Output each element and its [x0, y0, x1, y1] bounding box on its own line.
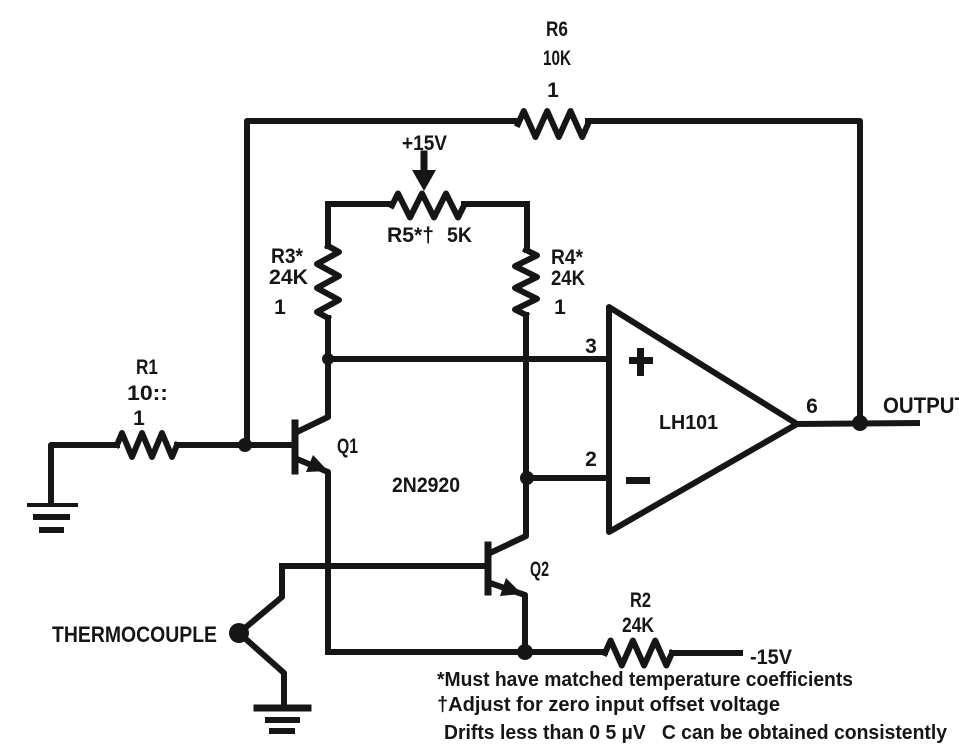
svg-text:6: 6: [806, 395, 818, 418]
svg-text:R6: R6: [546, 18, 568, 41]
svg-text:2: 2: [585, 448, 597, 471]
svg-text:5K: 5K: [447, 224, 472, 247]
svg-text:10K: 10K: [543, 47, 571, 70]
svg-text:R5*†: R5*†: [387, 224, 434, 247]
svg-text:†Adjust for zero input offset: †Adjust for zero input offset voltage: [437, 694, 780, 716]
svg-text:24K: 24K: [622, 614, 654, 637]
svg-text:THERMOCOUPLE: THERMOCOUPLE: [52, 622, 217, 647]
svg-text:24K: 24K: [269, 266, 308, 289]
svg-text:R1: R1: [136, 356, 158, 379]
svg-text:1: 1: [547, 79, 559, 102]
svg-text:*Must have matched temperature: *Must have matched temperature coefficie…: [437, 669, 853, 691]
svg-text:+15V: +15V: [402, 132, 447, 155]
svg-text:1: 1: [274, 296, 286, 319]
svg-text:2N2920: 2N2920: [392, 474, 460, 497]
svg-text:OUTPUT: OUTPUT: [883, 393, 959, 418]
svg-text:1: 1: [133, 407, 145, 430]
svg-text:Drifts less than 0 5 µV C ca: Drifts less than 0 5 µV C can be obtaine…: [444, 722, 948, 744]
svg-text:24K: 24K: [551, 267, 585, 290]
svg-text:-15V: -15V: [750, 646, 792, 669]
svg-text:R3*: R3*: [271, 245, 304, 268]
svg-text:R2: R2: [630, 589, 651, 612]
svg-text:10::: 10::: [127, 382, 168, 405]
svg-text:Q1: Q1: [337, 435, 358, 458]
svg-text:1: 1: [554, 296, 566, 319]
svg-text:3: 3: [585, 335, 597, 358]
svg-text:Q2: Q2: [530, 558, 549, 581]
svg-text:R4*: R4*: [551, 246, 584, 269]
svg-text:LH101: LH101: [659, 412, 718, 434]
